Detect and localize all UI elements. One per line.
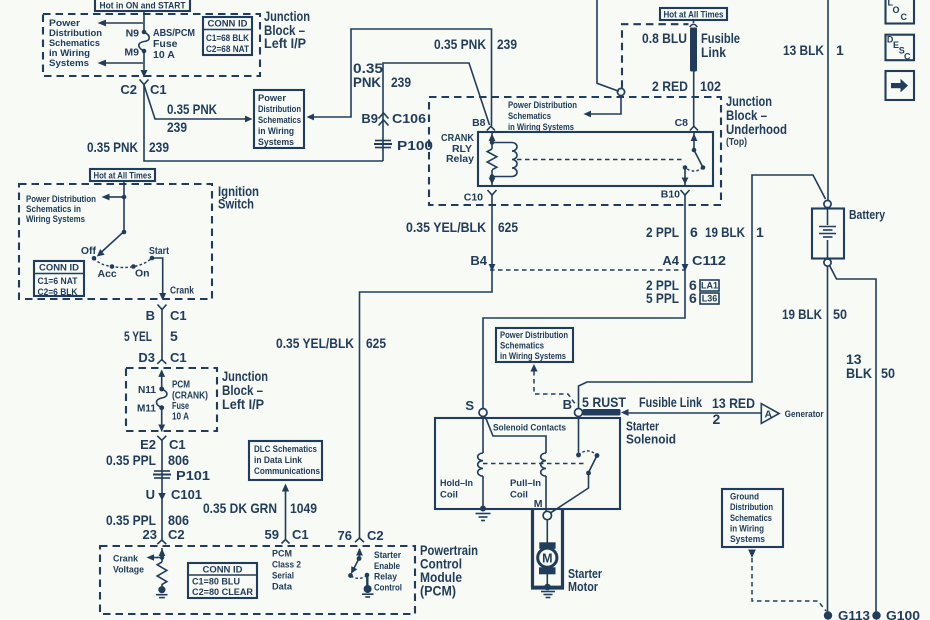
svg-text:L36: L36 [702,294,718,304]
fuse value label (JB2) [172,379,208,423]
svg-text:Starter: Starter [374,550,401,560]
solenoid contact switch [551,417,599,513]
contact Start [149,245,169,260]
ignition wiper arm pointing at Off [97,232,124,257]
wire label 0.35 PPL 806 (upper) [106,452,189,468]
relay coil [492,143,517,177]
svg-text:Junction: Junction [222,369,268,384]
svg-text:Relay: Relay [374,572,397,582]
svg-text:Power Distribution: Power Distribution [500,330,568,340]
svg-text:Pull–In: Pull–In [510,478,541,489]
svg-text:C10: C10 [464,192,483,204]
svg-text:59: 59 [265,527,279,542]
svg-text:Relay: Relay [446,153,474,165]
svg-text:Fusible Link: Fusible Link [639,394,702,410]
svg-text:M9: M9 [124,47,139,59]
svg-text:0.35 PNK: 0.35 PNK [167,101,217,117]
wire into fuse [161,371,163,389]
wire from banner to junction block [143,11,145,32]
svg-text:C1=68 BLK: C1=68 BLK [206,33,249,44]
connector at fusible link top [690,20,697,27]
wire feed to wiper pivot [122,197,127,234]
dashed actuation link (solenoid) [483,463,587,465]
label Powertrain Control Module (PCM) [420,543,478,599]
svg-text:0.35 PPL: 0.35 PPL [106,452,156,468]
svg-text:Serial: Serial [272,571,294,581]
label Junction Block Underhood (Top) [726,94,787,148]
svg-text:C2: C2 [367,528,384,543]
hold-in coil branch [478,417,486,512]
wire label 0.35 PNK 239 (C2 branch) [87,139,169,155]
svg-text:10 A: 10 A [153,49,175,61]
contact On [131,264,149,279]
svg-text:S: S [465,398,474,413]
svg-text:B4: B4 [470,253,487,268]
svg-text:806: 806 [168,512,189,528]
svg-text:C1=6 NAT: C1=6 NAT [38,276,78,287]
wire label 0.35 DK GRN 1049 [203,500,317,516]
label starter enable relay control [374,550,402,592]
svg-text:C1: C1 [169,437,186,452]
wire label 13 RED 2 [712,395,755,427]
wire C10 down to PCM pin 76 [360,195,493,538]
svg-text:Communications: Communications [254,466,320,476]
svg-text:B9: B9 [361,111,378,126]
fuse value label [153,27,195,61]
wire label 19 BLK 50 [782,306,847,322]
svg-text:239: 239 [167,119,187,135]
wire ignition to JB2 [161,310,163,360]
svg-text:1049: 1049 [290,500,317,516]
connector 76 / C2 [338,528,384,543]
label PCM class 2 serial data [272,549,301,592]
wire label 13 BLK 50 [846,351,895,381]
svg-text:Power: Power [49,18,81,28]
junction block left I/P (dashed) [43,14,260,76]
svg-text:C1: C1 [292,527,309,542]
svg-text:C2=80 CLEAR: C2=80 CLEAR [192,587,253,598]
svg-text:Start: Start [149,245,169,257]
svg-text:C1: C1 [150,82,167,97]
wire from top into node [597,0,619,91]
svg-text:in Data Link: in Data Link [254,455,303,465]
svg-text:B: B [146,308,155,323]
relay resistor [487,149,497,170]
junction block underhood (dashed) [429,97,721,205]
svg-text:D3: D3 [138,350,155,365]
wire label 2 PPL 6 (upper) [646,224,698,240]
svg-text:10 A: 10 A [172,411,189,423]
note power distribution schematics (JB1) [49,18,102,68]
svg-text:N9: N9 [126,28,140,40]
svg-text:P100: P100 [397,138,433,153]
svg-text:C: C [904,51,911,61]
label Fusible Link [701,30,740,60]
wire Start contact down (Crank) [152,258,194,301]
label Starter Solenoid [626,419,676,447]
svg-text:Enable: Enable [374,561,400,571]
pin B4 arrow [470,253,495,272]
wire PNK net to relay B8 [383,63,490,161]
svg-text:Distribution: Distribution [258,104,301,114]
svg-text:BLK: BLK [846,365,872,381]
svg-text:Systems: Systems [49,58,89,68]
svg-text:Block –: Block – [726,108,767,123]
wire PNK net upper loop to power distribution [313,29,492,126]
svg-text:in Wiring Systems: in Wiring Systems [500,351,566,361]
svg-text:C2: C2 [168,527,185,542]
fuse ABS/PCM 10A [139,32,150,51]
wire 59 up to DLC [282,484,289,540]
wire M9 down to connector [143,51,145,77]
connector U / C101 [146,487,202,502]
svg-text:Schematics: Schematics [49,38,100,48]
contact Off [81,245,97,261]
svg-text:102: 102 [700,78,721,94]
powertrain control module box (dashed) [100,546,415,614]
svg-text:1: 1 [756,224,764,240]
pin C10 [464,190,497,204]
svg-text:6: 6 [690,224,698,240]
svg-text:0.35 YEL/BLK: 0.35 YEL/BLK [276,335,354,351]
svg-text:Class 2: Class 2 [272,560,301,570]
wire M to starter motor [546,520,548,544]
wire node to schematics arrow [584,96,622,118]
svg-text:0.35 YEL/BLK: 0.35 YEL/BLK [406,219,486,235]
svg-text:Motor: Motor [568,579,598,594]
svg-text:Coil: Coil [440,490,458,501]
fusible link 5 RUST [582,394,626,416]
starter motor M [538,542,557,574]
svg-text:Control: Control [374,582,402,592]
node N11 [138,384,164,396]
svg-text:Junction: Junction [726,94,772,109]
svg-text:Wiring Systems: Wiring Systems [26,214,85,224]
svg-text:Schematics in: Schematics in [26,204,81,214]
svg-text:C8: C8 [675,117,689,129]
CONN ID table JB1 [203,17,252,55]
svg-text:in Wiring Systems: in Wiring Systems [508,122,574,132]
terminal S [465,398,487,417]
svg-text:Hot in ON and START: Hot in ON and START [100,1,186,12]
svg-text:13 RED: 13 RED [712,395,755,411]
svg-text:On: On [135,268,150,280]
ground G100 [872,608,920,620]
relay coil branch vertical [489,132,496,186]
svg-text:C1: C1 [170,308,187,323]
wire label 2 RED 102 [652,78,721,94]
starter solenoid box [435,418,620,509]
svg-text:Schematics: Schematics [508,111,551,121]
arrow into fusible link 5 RUST [621,409,629,416]
pin B10 [661,189,690,201]
svg-text:Crank: Crank [170,285,194,297]
wire 76 into PCM [356,548,363,559]
svg-text:G100: G100 [886,608,920,620]
ground below solenoid (hold-in) [476,514,491,521]
terminal M [534,498,552,520]
svg-text:Ground: Ground [730,492,759,502]
dashed actuation link [517,159,683,161]
svg-text:50: 50 [833,306,847,322]
label Ignition Switch [218,184,259,212]
svg-text:Distribution: Distribution [49,28,102,38]
node circle on JB underhood edge [617,88,624,95]
svg-text:M: M [534,498,543,510]
node crank voltage [160,548,165,562]
connector E2 / C1 [140,436,186,452]
svg-text:Acc: Acc [98,268,117,280]
relay switch [682,132,706,186]
wire B10 down to solenoid S [483,195,685,408]
svg-text:Power Distribution: Power Distribution [508,100,577,110]
svg-text:0.35 PPL: 0.35 PPL [106,512,156,528]
arrow to crank voltage [113,554,162,575]
svg-text:B8: B8 [472,117,486,129]
arrow to schematics upper [98,20,144,27]
svg-text:DLC Schematics: DLC Schematics [254,444,317,454]
svg-text:Hot at All Times: Hot at All Times [664,10,724,20]
splice P101 [153,468,210,483]
svg-text:C1=80 BLU: C1=80 BLU [192,577,240,588]
svg-text:625: 625 [366,335,386,351]
svg-text:Distribution: Distribution [730,502,773,512]
svg-text:M: M [542,551,552,565]
fusible link 0.8 BLU [690,28,697,72]
wire 19 BLK 50 battery to G113 [827,266,829,613]
dashed reference from B to power distribution box [530,364,575,405]
wire label 2 PPL 6 LA1 [646,277,719,293]
connector B9 / C106 [361,111,426,126]
svg-text:G113: G113 [838,608,870,620]
svg-text:CONN ID: CONN ID [203,565,243,576]
svg-text:Schematics: Schematics [258,115,301,125]
dashed switch travel arc [94,258,152,268]
svg-text:Generator: Generator [785,409,824,420]
svg-text:2 PPL: 2 PPL [646,224,679,240]
connector B / C1 [146,305,187,324]
dashed ground reference wire to G113 [748,550,826,612]
fuse PCM (CRANK) 10A [156,389,167,408]
svg-text:Off: Off [81,245,97,257]
svg-text:50: 50 [881,365,895,381]
svg-text:Schematics: Schematics [730,513,772,523]
svg-text:CONN ID: CONN ID [208,19,248,30]
DLC schematics box [249,441,322,480]
svg-text:Hot at All Times: Hot at All Times [94,171,152,181]
svg-text:Left I/P: Left I/P [222,397,264,412]
svg-text:1: 1 [836,42,844,58]
connector 59 / C1 [265,527,309,544]
pin C8 [675,117,698,131]
label CRANK RLY Relay [441,132,474,165]
svg-text:806: 806 [168,452,189,468]
svg-text:Systems: Systems [730,534,765,544]
node N9 [126,28,147,40]
splice P100 [374,138,433,153]
wire label 0.35 YEL/BLK 625 (lower) [276,335,386,351]
connector C112 dashed line [490,269,685,271]
wire label 0.35 PNK 239 (B9 branch) [353,60,411,90]
arrow into JB2 [158,369,165,377]
hot at all times banner (left) [90,169,155,181]
contact Acc [98,264,117,280]
svg-text:2: 2 [713,411,721,427]
svg-text:O: O [893,5,900,15]
wire 13 RED 2 to generator [626,412,761,414]
junction block left I/P lower (dashed) [126,368,217,431]
svg-text:PCM: PCM [272,549,292,559]
wire label 0.35 YEL/BLK 625 (upper) [406,219,518,235]
pin B8 [472,117,495,131]
node M11 [137,403,164,415]
svg-text:C112: C112 [692,253,726,268]
wire C2 down and across to splice P100 [144,85,383,161]
svg-text:in Wiring: in Wiring [730,524,764,534]
CONN ID table PCM [188,563,257,598]
connector 23 / C2 [143,527,185,544]
svg-text:Coil: Coil [510,490,528,501]
wire banner into ignition switch [123,181,125,197]
wire 19 BLK 1 from solenoid B to battery [579,175,826,408]
pcm internal resistor [157,562,167,587]
svg-text:C2=6 BLK: C2=6 BLK [38,287,78,298]
wire C1 branch to power distribution [144,85,253,122]
wire 13 BLK 1 from top to battery [827,0,829,201]
svg-text:N11: N11 [138,384,156,396]
svg-text:(PCM): (PCM) [420,584,456,599]
svg-text:5 YEL: 5 YEL [124,328,152,344]
arrow out of JB2 bottom [158,425,165,432]
ignition switch box (dashed) [19,184,212,299]
svg-text:C2=68 NAT: C2=68 NAT [206,44,249,55]
power distribution schematics box (left) [254,90,304,148]
svg-text:0.35 PNK: 0.35 PNK [87,139,138,155]
svg-text:A4: A4 [662,253,679,268]
svg-text:CONN ID: CONN ID [39,263,79,274]
svg-text:Battery: Battery [849,207,886,222]
svg-text:239: 239 [149,139,169,155]
svg-text:625: 625 [498,219,518,235]
svg-text:in Wiring: in Wiring [258,126,294,136]
svg-text:Data: Data [272,582,293,592]
svg-text:M11: M11 [137,403,156,415]
svg-text:239: 239 [391,74,411,90]
wire fusible link to C8 [693,72,695,127]
wire label 5 PPL 6 L36 [646,290,719,306]
arrow into PCM at pin 23 [159,549,166,557]
svg-text:5: 5 [170,328,178,344]
icon DESC [886,35,915,62]
svg-text:Power: Power [258,93,287,103]
svg-text:0.8 BLU: 0.8 BLU [642,30,687,46]
svg-text:Junction: Junction [264,9,310,24]
svg-text:Power Distribution: Power Distribution [26,194,96,204]
label Hold-In Coil [440,478,473,501]
svg-text:LA1: LA1 [701,281,718,291]
label Junction Block Left I/P (lower) [222,369,268,412]
note power distribution schematics (ignition) [26,194,96,224]
arrow into power distribution box (right side) [307,114,315,121]
svg-text:B10: B10 [661,189,680,201]
wire E2 down to PCM [161,440,163,540]
hot at all times banner (top right) [660,8,727,20]
svg-text:Systems: Systems [258,137,294,147]
svg-text:5 RUST: 5 RUST [582,394,626,410]
arrow to schematics (ignition) [102,194,127,201]
svg-text:Left I/P: Left I/P [264,36,306,51]
svg-text:A: A [765,409,773,421]
wire label 19 BLK 1 [705,224,764,240]
connector D3 / C1 [138,350,186,365]
svg-text:C1: C1 [170,350,187,365]
svg-text:B: B [563,397,572,412]
starter enable relay switch [348,556,373,597]
svg-text:Link: Link [701,44,726,60]
svg-text:(Top): (Top) [726,136,747,148]
svg-text:0.35 PNK: 0.35 PNK [434,36,486,52]
dashed power distribution elbow to fusible link [622,24,689,88]
svg-text:Crank: Crank [113,554,139,564]
node M9 [124,47,146,59]
pin A4 / C112 [662,253,726,272]
icon LOC [886,0,915,24]
svg-text:Underhood: Underhood [726,122,787,137]
svg-text:C101: C101 [171,487,202,502]
svg-text:13 BLK: 13 BLK [783,42,824,58]
svg-text:5 PPL: 5 PPL [646,290,679,306]
svg-text:P101: P101 [176,468,210,483]
starter motor ground [541,574,555,598]
power distribution schematics box (solenoid) [496,328,573,362]
wire label 0.35 PNK 239 (top run) [434,36,517,52]
starter motor enclosure [531,509,564,588]
connector C2/C1 split symbol [140,80,149,85]
svg-text:19 BLK: 19 BLK [705,224,745,240]
svg-text:Solenoid: Solenoid [626,432,676,447]
ground distribution schematics box [722,489,783,547]
pull-in coil branch [485,417,546,512]
label Junction Block Left I/P [264,9,310,51]
svg-text:19 BLK: 19 BLK [782,306,822,322]
arrow out of JB1 bottom [141,70,148,78]
label Pull-In Coil [510,478,541,501]
arrow to schematics lower [98,60,144,67]
svg-text:23: 23 [143,527,157,542]
note power distribution schematics (JB underhood) [508,100,577,132]
svg-text:0.35 DK GRN: 0.35 DK GRN [203,500,277,516]
pcm internal ground [156,586,168,597]
wire label 0.35 PNK 239 (C1 branch) [167,101,217,135]
svg-text:E2: E2 [140,437,156,452]
svg-text:239: 239 [497,36,517,52]
icon forward arrow [886,71,915,100]
svg-text:C: C [901,12,908,22]
svg-text:C2: C2 [120,82,137,97]
svg-text:Schematics: Schematics [500,341,544,351]
svg-text:U: U [146,487,155,502]
wire M11 out of JB2 [161,408,163,432]
svg-text:PNK: PNK [353,74,381,90]
battery [812,200,886,266]
svg-text:6: 6 [689,290,697,306]
svg-text:Hold–In: Hold–In [440,478,473,489]
svg-text:in Wiring: in Wiring [49,48,90,58]
svg-text:C106: C106 [392,111,426,126]
wire label 13 BLK 1 [783,42,844,58]
ground G113 [824,608,870,620]
wire 13 BLK 50 battery to G100 [830,266,876,613]
